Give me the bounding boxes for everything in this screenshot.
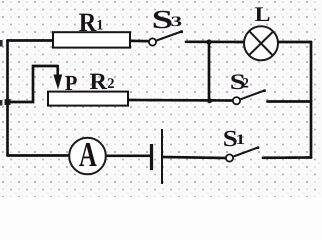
wire S2 to right vertical — [268, 100, 312, 103]
wire R1 to S3 — [130, 39, 149, 42]
svg-text:A: A — [79, 135, 97, 174]
wire top-left horizontal — [8, 39, 54, 42]
switch S2 — [233, 89, 266, 104]
svg-text:3: 3 — [171, 14, 183, 30]
svg-text:L: L — [255, 3, 271, 26]
svg-text:2: 2 — [107, 76, 114, 92]
junction node top (S3/lamp branch) — [206, 39, 211, 44]
svg-text:1: 1 — [96, 18, 103, 34]
rheostat R2 — [48, 92, 128, 106]
svg-text:P: P — [65, 71, 78, 95]
wire left vertical — [6, 41, 9, 156]
wire R2 to S2 — [128, 99, 233, 102]
wiper arrow P — [53, 65, 62, 90]
svg-text:1: 1 — [236, 132, 246, 148]
lamp L — [244, 26, 278, 60]
wire S1 to right corner — [263, 156, 311, 159]
switch S3 — [149, 30, 183, 46]
resistor R1 — [53, 32, 130, 47]
scan mark left edge middle — [0, 100, 2, 106]
svg-text:R: R — [79, 7, 97, 37]
wire bottom-left to ammeter — [8, 154, 70, 157]
wire S3 to lamp L — [186, 40, 245, 43]
svg-text:2: 2 — [242, 76, 248, 92]
wire right vertical — [310, 42, 313, 158]
wire middle branch vertical — [208, 42, 211, 101]
junction node middle (R2/S2 branch) — [207, 98, 212, 103]
battery cell — [152, 129, 163, 184]
svg-text:R: R — [90, 69, 109, 95]
junction node left (wire joint) — [5, 99, 11, 105]
wire ammeter to battery — [106, 154, 150, 157]
ammeter A — [69, 138, 106, 175]
wire lamp L to right edge — [278, 41, 311, 44]
wire battery to S1 — [164, 157, 227, 158]
switch S1 — [226, 146, 260, 161]
scan mark left edge top — [0, 40, 3, 47]
wire node A to rheostat step — [8, 66, 58, 102]
